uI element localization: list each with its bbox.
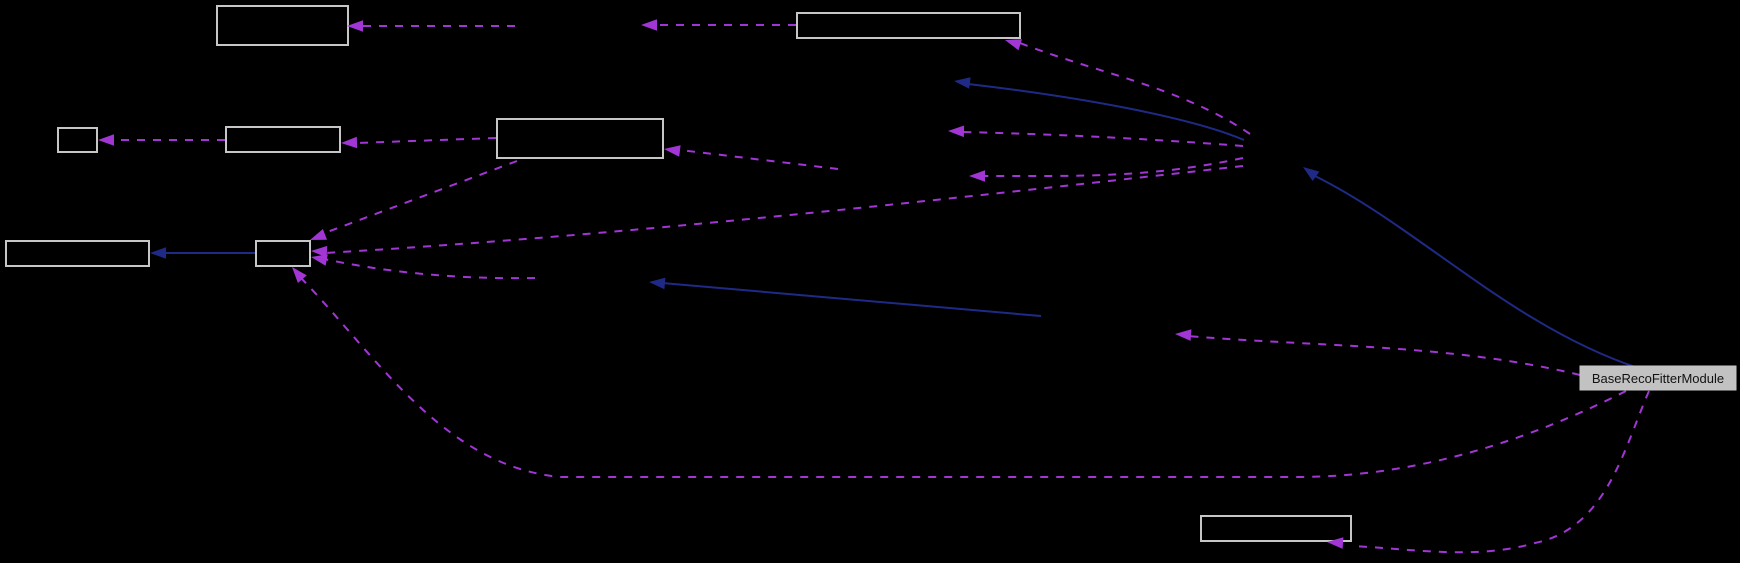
wire solid blue N5->N4 xyxy=(662,283,1041,316)
node A (top-left class box) xyxy=(217,6,348,45)
wire dashed I->H (bottom right curve) xyxy=(1353,391,1649,552)
wire dashed N2->B (curve to corner) xyxy=(1020,43,1250,134)
svg-text:BaseRecoFitterModule: BaseRecoFitterModule xyxy=(1592,371,1724,386)
wire solid blue I->N2 xyxy=(1315,176,1638,368)
wire dashed E->D xyxy=(356,138,496,143)
wire dashed N2->N7 xyxy=(962,132,1243,146)
wire dashed D->C xyxy=(112,139,225,141)
wire solid blue N2->N8 xyxy=(968,84,1244,140)
wire solid blue G->F xyxy=(164,252,255,254)
wire dashed N4->G xyxy=(324,259,535,278)
wire dashed N3->E xyxy=(680,150,838,169)
node D (left class box) xyxy=(226,127,340,152)
wire dashed B->N1 xyxy=(655,24,796,26)
node E (center-left class box, two lines) xyxy=(497,119,663,158)
wire dashed N1->A xyxy=(362,25,515,27)
wire dashed N2->G (long) xyxy=(325,166,1243,253)
node C (small left class box) xyxy=(58,128,97,152)
node B (top class box) xyxy=(797,13,1020,38)
node G (small lower class box) xyxy=(256,241,310,266)
wire dashed E->G (diagonal) xyxy=(322,161,517,234)
wire dashed I->N5 xyxy=(1188,336,1580,375)
node F (lower-left class box) xyxy=(6,241,149,266)
wire dashed N2->N3 xyxy=(983,158,1243,176)
node BaseRecoFitterModule (current class, gray) xyxy=(1580,366,1736,390)
wire dashed I->G (big bottom curve) xyxy=(300,277,1626,477)
node H (bottom class box) xyxy=(1201,516,1351,541)
